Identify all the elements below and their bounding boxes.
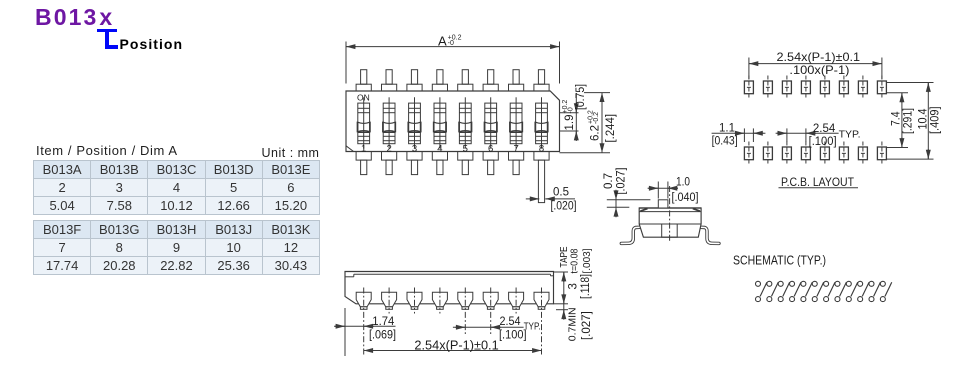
svg-text:[.100]: [.100] xyxy=(809,136,837,148)
svg-text:A: A xyxy=(438,34,447,49)
svg-text:0.5: 0.5 xyxy=(553,186,569,198)
svg-text:1.1: 1.1 xyxy=(719,123,735,135)
svg-text:-0: -0 xyxy=(567,107,574,113)
svg-text:[.118]: [.118] xyxy=(580,274,592,299)
svg-text:[.027]: [.027] xyxy=(616,168,628,195)
svg-text:7: 7 xyxy=(513,143,518,154)
svg-text:-0.2: -0.2 xyxy=(593,112,600,124)
svg-text:[.069]: [.069] xyxy=(369,330,396,342)
svg-text:[.003]: [.003] xyxy=(582,248,593,273)
svg-text:[0.43]: [0.43] xyxy=(712,136,738,148)
svg-text:2: 2 xyxy=(386,143,391,154)
svg-text:ON: ON xyxy=(357,92,370,102)
svg-text:[.244]: [.244] xyxy=(605,114,617,143)
svg-text:-0: -0 xyxy=(448,40,454,47)
svg-text:3: 3 xyxy=(412,143,417,154)
svg-text:1.0: 1.0 xyxy=(676,177,690,189)
svg-text:2.54x(P-1)±0.1: 2.54x(P-1)±0.1 xyxy=(777,50,861,64)
svg-text:2.54x(P-1)±0.1: 2.54x(P-1)±0.1 xyxy=(414,338,498,352)
svg-text:[.040]: [.040] xyxy=(672,192,699,204)
svg-text:7.4: 7.4 xyxy=(891,111,903,126)
svg-text:TAPE: TAPE xyxy=(559,246,570,267)
svg-text:TYP.: TYP. xyxy=(839,129,861,141)
svg-text:[.291]: [.291] xyxy=(903,108,915,134)
svg-text:TYP.: TYP. xyxy=(524,321,541,333)
svg-text:[0.75]: [0.75] xyxy=(575,84,587,110)
svg-text:4: 4 xyxy=(437,143,442,154)
svg-text:10.4: 10.4 xyxy=(918,108,930,130)
svg-text:0.7: 0.7 xyxy=(603,173,615,189)
svg-text:1: 1 xyxy=(361,143,366,154)
svg-text:6.2: 6.2 xyxy=(590,125,602,141)
svg-text:1.74: 1.74 xyxy=(372,316,395,328)
svg-text:.100x(P-1): .100x(P-1) xyxy=(789,63,849,77)
svg-text:5: 5 xyxy=(463,143,468,154)
svg-text:[.020]: [.020] xyxy=(551,201,577,213)
svg-text:[.409]: [.409] xyxy=(930,107,942,135)
svg-text:8: 8 xyxy=(539,143,544,154)
svg-text:0.7MIN: 0.7MIN xyxy=(567,307,579,341)
svg-text:2.54: 2.54 xyxy=(500,316,522,328)
svg-text:SCHEMATIC (TYP.): SCHEMATIC (TYP.) xyxy=(733,252,826,267)
svg-text:t=0.08: t=0.08 xyxy=(570,248,581,273)
svg-text:[.027]: [.027] xyxy=(581,311,593,340)
svg-text:[.100]: [.100] xyxy=(499,329,527,341)
svg-text:6: 6 xyxy=(488,143,493,154)
svg-text:1.9: 1.9 xyxy=(564,115,576,131)
svg-text:2.54: 2.54 xyxy=(813,123,836,135)
svg-text:3: 3 xyxy=(568,283,580,289)
